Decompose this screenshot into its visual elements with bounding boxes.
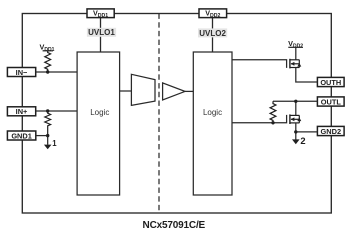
node (IN+ / R2) bbox=[46, 109, 49, 112]
wire VDD1 to logic1 (UVLO1) bbox=[100, 18, 102, 52]
node (IN- / R1) bbox=[46, 70, 49, 73]
UVLO1 label bbox=[87, 28, 116, 37]
receiver buffer (triangle) bbox=[163, 83, 185, 100]
pin box OUTH bbox=[317, 77, 344, 87]
svg-text:2: 2 bbox=[300, 135, 305, 146]
IC outline bbox=[22, 14, 331, 214]
VDD1 power symbol (above pull-up resistor) bbox=[40, 43, 55, 53]
wire logic1 to driver bbox=[120, 90, 132, 92]
node (Q2 drain / OUTL) bbox=[294, 100, 297, 103]
wire IN- to logic1 bbox=[36, 71, 77, 73]
pin box VDD2 bbox=[199, 9, 227, 20]
node (R3 / Q2 gate) bbox=[271, 121, 274, 124]
pin box IN- bbox=[7, 68, 35, 77]
driver amp (trapezoid) bbox=[131, 74, 155, 105]
pin box VDD1 bbox=[87, 9, 114, 20]
ground 2 symbol bbox=[292, 132, 306, 146]
svg-text:NCx57091C/E: NCx57091C/E bbox=[143, 220, 206, 231]
svg-text:GND2: GND2 bbox=[321, 127, 342, 136]
node (Q2 source / GND2) bbox=[294, 130, 297, 133]
wire GND1 to ground node bbox=[36, 135, 48, 137]
wire Q1 source to OUTH bbox=[296, 68, 318, 83]
resistor R3 (Q2 gate) bbox=[270, 101, 276, 123]
node (GND1 / R2) bbox=[46, 134, 49, 137]
wire buffer to logic2 bbox=[185, 90, 193, 92]
svg-text:IN−: IN− bbox=[16, 68, 28, 77]
wire Q2 drain to OUTL rail bbox=[295, 101, 297, 115]
UVLO2 label bbox=[198, 28, 227, 37]
svg-text:IN+: IN+ bbox=[16, 107, 28, 116]
ground 1 symbol bbox=[44, 136, 57, 150]
svg-text:UVLO1: UVLO1 bbox=[88, 28, 115, 37]
resistor R1 (IN- pull-up) bbox=[45, 51, 51, 72]
pin box OUTL bbox=[317, 97, 344, 107]
pin box GND2 bbox=[317, 126, 344, 136]
transistor Q2 (low side) bbox=[290, 114, 301, 124]
isolation barrier (dashed) bbox=[158, 14, 160, 214]
wire logic2 to Q1 gate bbox=[232, 60, 287, 68]
svg-text:OUTH: OUTH bbox=[320, 78, 341, 87]
wire Q2 source to GND2 bbox=[295, 123, 297, 132]
VDD2 power symbol (above Q1) bbox=[288, 39, 303, 60]
logic block U2 bbox=[193, 52, 232, 195]
wire logic2 to Q2 gate bbox=[232, 115, 287, 123]
svg-text:Logic: Logic bbox=[203, 108, 222, 117]
resistor R2 (IN+ pull-down) bbox=[45, 111, 51, 136]
transistor Q1 (high side) bbox=[290, 59, 301, 69]
svg-text:Logic: Logic bbox=[90, 108, 109, 117]
pin box IN+ bbox=[7, 107, 35, 116]
svg-text:1: 1 bbox=[52, 139, 57, 148]
wire OUTL rail bbox=[273, 100, 317, 102]
wire IN+ to logic1 bbox=[36, 110, 77, 112]
svg-text:OUTL: OUTL bbox=[321, 98, 342, 107]
wire VDD2 to logic2 (UVLO2) bbox=[212, 18, 214, 52]
wire GND2 rail bbox=[296, 131, 318, 133]
svg-text:GND1: GND1 bbox=[11, 131, 32, 140]
logic block U1 bbox=[77, 52, 120, 195]
svg-text:UVLO2: UVLO2 bbox=[199, 29, 226, 38]
pin box GND1 bbox=[7, 131, 35, 140]
